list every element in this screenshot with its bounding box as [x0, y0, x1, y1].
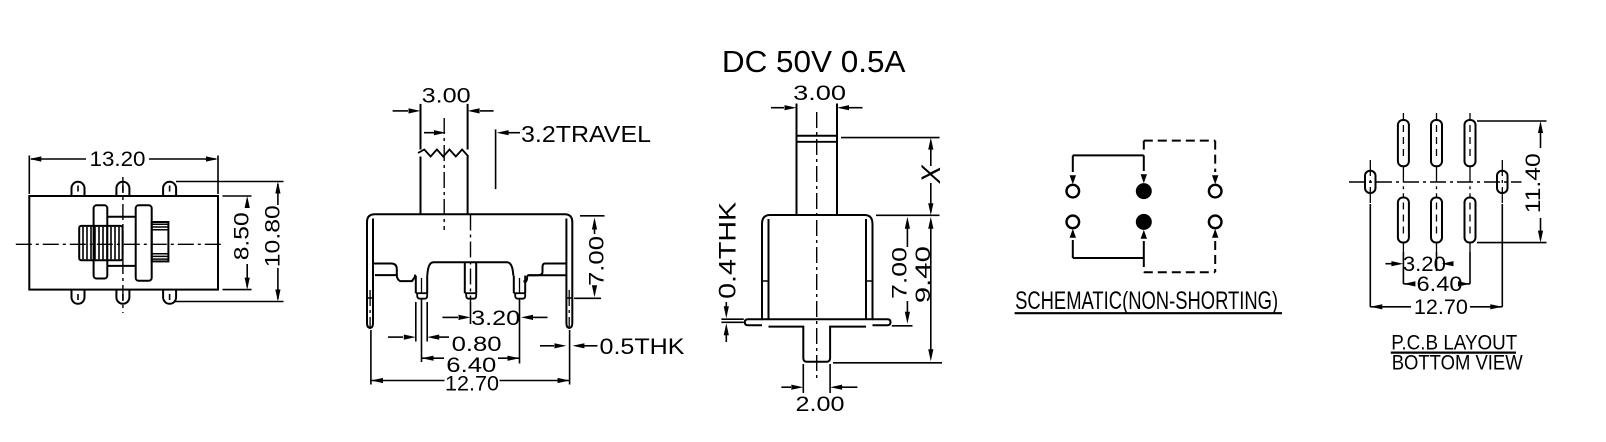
dimension 7.00 (side) bottom extension line: [892, 325, 913, 327]
schematic wire: solid bracket top (pos 1): [1072, 155, 1074, 172]
front view body bottom middle plateau: [427, 262, 513, 275]
front view left mounting leg: [367, 219, 373, 328]
dimension 3.00 (side): [771, 107, 784, 109]
svg-text:7.00: 7.00: [584, 236, 608, 286]
pin 1 edge extension lines (0.80): [415, 302, 417, 342]
dimension 12.70 (front) extension lines: [370, 330, 372, 385]
svg-text:0.4THK: 0.4THK: [715, 202, 742, 299]
dimension 12.70 (pcb): [1370, 306, 1411, 308]
pin 3 centerline extension: [519, 278, 521, 300]
dimension 11.40 extension lines: [1477, 120, 1547, 122]
dimension 8.50 extension lines: [223, 195, 252, 197]
side view vertical centerline: [816, 112, 818, 378]
front view actuator stem: [420, 104, 422, 150]
travel extent line: [495, 129, 497, 189]
front view body centerline / pin 2 centerline: [470, 215, 472, 303]
side view left leg inner line: [768, 219, 770, 319]
front view terminal pin 2: [464, 262, 466, 293]
top view body outline: [29, 196, 218, 290]
svg-text:0.5THK: 0.5THK: [600, 334, 685, 359]
dimension 10.80: [277, 184, 279, 205]
dimension X extension line (stem top): [841, 137, 940, 139]
schematic common pin 5 (filled): [1137, 215, 1151, 229]
top view upper terminal pin 1: [72, 182, 85, 196]
top view knob crossbar: [107, 216, 135, 218]
top view horizontal centerline: [16, 243, 221, 245]
svg-text:BOTTOM VIEW: BOTTOM VIEW: [1392, 351, 1523, 374]
front view terminal pin 1: [415, 276, 417, 294]
travel direction arrow: [424, 132, 442, 134]
side view right flange wing: [873, 319, 891, 325]
svg-text:3.00: 3.00: [422, 84, 471, 108]
dimension 2.00: [781, 386, 791, 388]
dimension 9.40 bottom extension line: [833, 362, 942, 364]
dimension X: [930, 142, 932, 167]
side view body outline: [762, 215, 873, 319]
side view right leg inner line: [865, 219, 867, 319]
dimension 0.80 (front): [388, 336, 403, 338]
svg-text:9.40: 9.40: [911, 246, 935, 303]
schematic wire: dashed bracket bottom (pos 2): [1143, 258, 1145, 272]
dimension 8.50: [246, 199, 248, 208]
top view upper terminal pin 2: [116, 182, 129, 196]
pcb mounting slot centerlines: [1369, 160, 1371, 204]
pin 1 centerline extension: [421, 278, 423, 300]
svg-text:10.80: 10.80: [261, 205, 285, 267]
top view vertical centerline: [122, 177, 124, 313]
schematic contact pin 1 (open): [1067, 185, 1080, 198]
svg-text:13.20: 13.20: [90, 147, 146, 171]
dimension 2.00 extension lines: [802, 364, 804, 393]
svg-text:DC 50V 0.5A: DC 50V 0.5A: [722, 44, 906, 79]
svg-text:12.70: 12.70: [1414, 295, 1468, 319]
schematic wire: dashed bracket top (pos 2): [1143, 141, 1145, 153]
svg-text:SCHEMATIC(NON-SHORTING): SCHEMATIC(NON-SHORTING): [1015, 287, 1278, 315]
svg-text:7.00: 7.00: [888, 247, 912, 299]
schematic wire: solid bracket bottom (pos 1): [1072, 240, 1074, 258]
front view body bottom left profile: [373, 264, 415, 282]
pcb pad slots bottom row: [1398, 198, 1409, 243]
svg-text:X: X: [916, 164, 946, 184]
dimension 9.40: [930, 221, 932, 357]
pcb left mounting slot: [1365, 171, 1376, 193]
side view base bottom and central tab: [769, 327, 867, 362]
dimension 3.20 (pcb): [1385, 263, 1393, 265]
dimension 7.00 (side): [906, 221, 908, 247]
svg-text:3.2TRAVEL: 3.2TRAVEL: [521, 121, 651, 147]
top view lower terminal pin 2: [116, 290, 129, 304]
front view body outline: [367, 214, 572, 222]
pcb horizontal centerline: [1349, 181, 1522, 183]
top view upper terminal pin 3: [163, 182, 176, 196]
top view knob right clip: [152, 222, 169, 261]
front view stem centerline: [443, 118, 445, 230]
dimension 6.40 (front): [422, 357, 445, 359]
top view knob left tab: [94, 205, 108, 278]
schematic contact pin 4 (open): [1067, 216, 1080, 229]
dimension 12.70 (front): [371, 380, 445, 382]
svg-text:3.20: 3.20: [471, 306, 520, 330]
front view right mounting leg: [566, 219, 572, 328]
dimension 7.00 (front) extension lines: [580, 215, 605, 217]
dimension 12.70 (pcb) extension lines: [1369, 204, 1371, 307]
dimension 3.00 (front): [393, 110, 408, 112]
top view knob right tab: [136, 205, 152, 280]
svg-text:2.00: 2.00: [796, 392, 845, 416]
side view left flange wing: [745, 319, 762, 325]
svg-text:6.40: 6.40: [1417, 272, 1463, 296]
dimension 7.00 (front): [594, 221, 596, 234]
dimension 3.20 (pcb) extension lines: [1402, 252, 1404, 284]
dimension 3.20 (front): [442, 316, 458, 318]
top view slider knob grip (hatched): [79, 226, 122, 260]
schematic contact pin 6 (open): [1209, 216, 1222, 229]
svg-text:11.40: 11.40: [1521, 153, 1545, 213]
pcb right mounting slot: [1497, 171, 1508, 193]
dimension 10.80 extension lines: [176, 181, 284, 183]
dimension X / 9.40 / 7.00 top extension line: [876, 214, 940, 216]
front view terminal pin 3: [513, 276, 515, 294]
dimension 13.20 extension lines: [28, 156, 30, 195]
side view stem: [796, 104, 798, 216]
svg-text:8.50: 8.50: [229, 212, 253, 260]
svg-text:3.00: 3.00: [793, 81, 846, 105]
top view lower terminal pin 3: [163, 290, 176, 304]
pcb column centerlines: [1402, 113, 1404, 119]
label 3.2TRAVEL: [497, 130, 509, 135]
dimension 13.20: [31, 158, 86, 160]
label 0.5THK: [540, 345, 554, 347]
front view stem break zigzag: [418, 150, 468, 157]
front view body bottom right profile: [524, 264, 567, 282]
top view lower terminal pin 1: [72, 290, 85, 304]
schematic contact pin 3 (open): [1209, 185, 1222, 198]
schematic common pin 2 (filled): [1137, 184, 1151, 198]
svg-text:12.70: 12.70: [445, 372, 499, 396]
dimension 11.40: [1540, 126, 1542, 148]
pcb pad slots top row: [1398, 120, 1409, 166]
dimension 6.40 (pcb): [1403, 281, 1415, 286]
